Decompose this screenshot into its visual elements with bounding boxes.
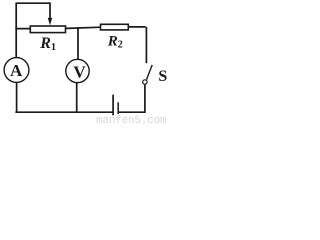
switch S contact circle (143, 80, 147, 84)
svg-text:A: A (10, 61, 23, 80)
wire: voltmeter branch vertical lower stub (76, 71, 78, 112)
wire: main top conductor between R1 and R2 (64, 27, 101, 28)
resistor R2 (101, 24, 129, 30)
wire: rheostat slider loop top-left (16, 3, 50, 28)
resistor R1 rheostat body (30, 26, 65, 33)
slider arrow onto R1 (48, 18, 53, 25)
svg-text:R2: R2 (107, 33, 123, 50)
wire: voltmeter branch vertical upper stub (77, 27, 79, 71)
battery short plate (117, 102, 119, 114)
svg-text:manfen5.com: manfen5.com (96, 115, 167, 124)
ammeter A (4, 58, 29, 83)
wire: main top conductor R2 to switch (128, 27, 147, 63)
wire: main top conductor R1 left stub (15, 28, 32, 30)
wire: left vertical branch lower (ammeter to bottom) (16, 70, 18, 112)
battery long plate (112, 95, 114, 116)
wire: bottom conductor right of battery up to switch contact (118, 85, 145, 113)
svg-text:R1: R1 (39, 35, 56, 53)
switch S blade (147, 65, 153, 80)
svg-text:V: V (73, 62, 86, 81)
voltmeter V (66, 59, 89, 82)
wire: left vertical branch upper (to ammeter) (15, 27, 17, 70)
wire: bottom conductor left of battery (15, 111, 113, 113)
svg-text:S: S (158, 68, 167, 85)
